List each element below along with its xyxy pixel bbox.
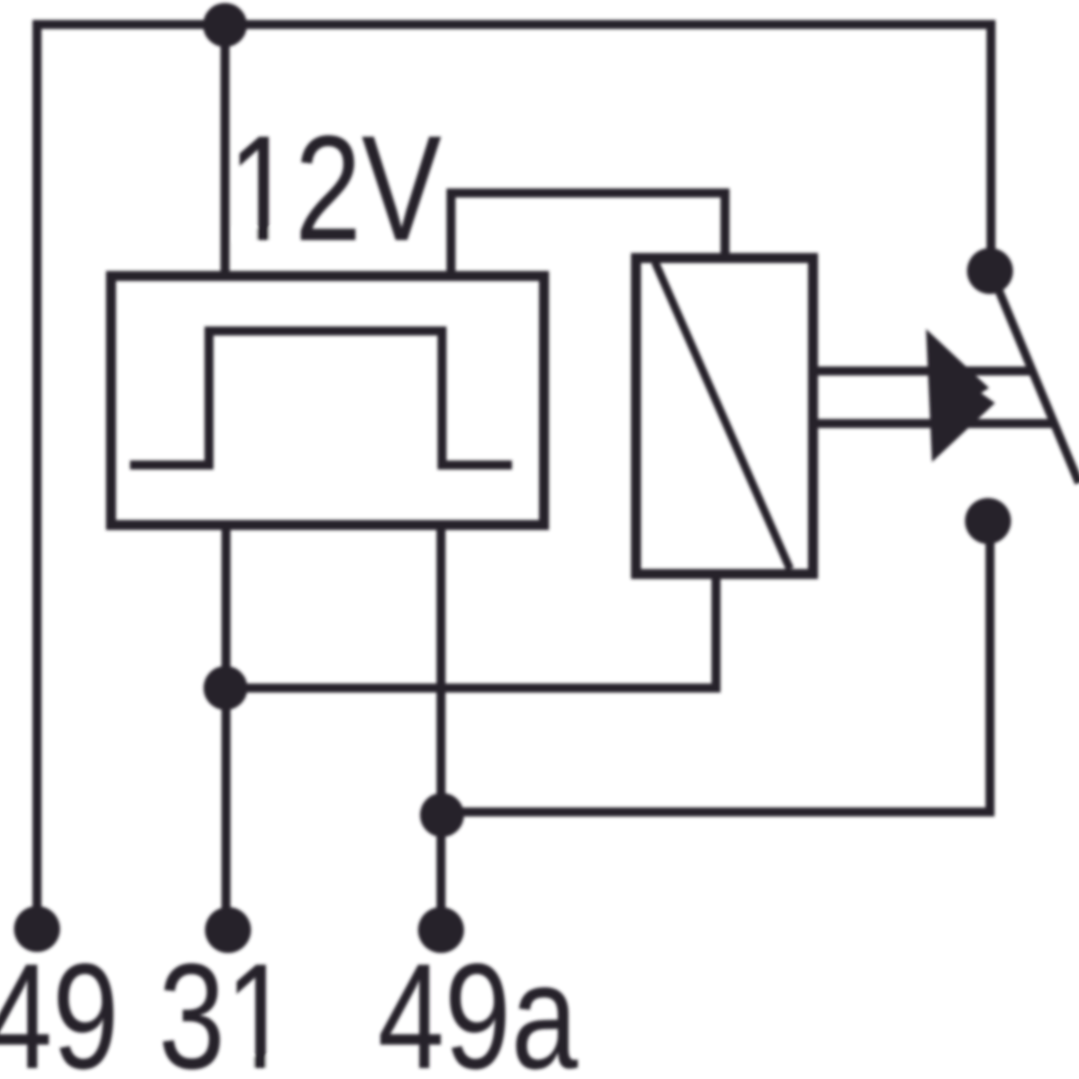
switch upper contact dot xyxy=(967,248,1013,294)
svg-text:49: 49 xyxy=(0,932,119,1079)
terminal dot 31 xyxy=(205,907,251,953)
label terminal 49 xyxy=(0,932,119,1079)
label terminal 31 xyxy=(158,932,291,1079)
coil diagonal stroke xyxy=(655,262,790,569)
svg-text:12V: 12V xyxy=(228,104,442,272)
wire flasher box to relay coil xyxy=(451,193,725,276)
actuator shaft bottom line xyxy=(813,419,1053,428)
wire coil to node 31 xyxy=(226,574,716,688)
terminal dot 49a xyxy=(418,907,464,953)
switch lower contact dot xyxy=(965,498,1011,544)
svg-text:49a: 49a xyxy=(378,932,579,1079)
wire 12V feed xyxy=(221,25,230,276)
label terminal 49a xyxy=(378,932,579,1079)
flasher unit box U1 xyxy=(111,276,544,525)
wire terminal 31 xyxy=(222,525,231,912)
heater element (hot-wire) inside U1 xyxy=(130,331,512,465)
wire 49a to switch lower contact xyxy=(442,540,990,812)
junction node 49a xyxy=(420,793,464,837)
label 12V xyxy=(228,104,442,272)
relay coil K1 xyxy=(636,258,813,574)
actuator shaft top line xyxy=(813,367,1034,376)
actuator arrowhead xyxy=(926,329,995,462)
wire terminal 49a xyxy=(437,525,446,912)
terminal dot 49 xyxy=(14,906,60,952)
switch lever xyxy=(992,274,1079,483)
junction node 31 xyxy=(204,666,248,710)
junction node top xyxy=(203,3,247,47)
wire 49 bus (left riser, top bus, right riser) xyxy=(37,25,991,913)
